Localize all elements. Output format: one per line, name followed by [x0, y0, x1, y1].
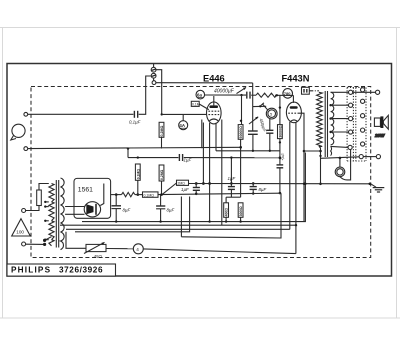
- transformer core: [324, 91, 326, 157]
- wire R1 down: [161, 137, 163, 148]
- junction cathode rail: [202, 182, 205, 185]
- svg-text:30000Ω: 30000Ω: [279, 125, 283, 137]
- grid resistor box 0,1M: [191, 101, 209, 109]
- chassis dashed box: [31, 87, 371, 258]
- mains transformer primary: [49, 184, 54, 246]
- anode wire of E446: [205, 94, 246, 96]
- wire bus4 left riser: [180, 197, 182, 237]
- linked terminals: [359, 155, 380, 159]
- svg-text:4A: 4A: [179, 123, 185, 128]
- label 40000uF with arrow: [214, 87, 246, 94]
- svg-text:3000Ω: 3000Ω: [239, 206, 243, 216]
- output lead to speaker terminal: [353, 91, 376, 93]
- voltage selector triangle: [12, 219, 31, 236]
- wire lamp top lead: [339, 158, 341, 167]
- wire B+ lead out of box: [111, 194, 122, 196]
- mains plug box: [302, 87, 310, 94]
- switch contact 4b: [179, 121, 188, 130]
- junction bus2 heater: [295, 224, 297, 226]
- primary taps: [44, 201, 49, 241]
- wire coupling cap to grid return node: [279, 168, 281, 193]
- mains switch contact lower: [43, 243, 46, 246]
- grid cap lead F443N: [292, 95, 294, 103]
- junction B+: [160, 193, 163, 196]
- svg-text:0,2MΩ: 0,2MΩ: [160, 126, 164, 137]
- svg-text:400Ω: 400Ω: [225, 208, 229, 217]
- switch arm: [262, 104, 268, 110]
- mains terminal 1: [22, 209, 26, 213]
- svg-text:0,1MΩ: 0,1MΩ: [144, 193, 155, 197]
- AF line right segment: [184, 157, 280, 159]
- 8uF electrolytic left: [112, 195, 131, 222]
- wire V1 heater leg 2 to bus: [221, 120, 223, 226]
- bus line 4: [181, 193, 281, 238]
- bus line 2: [60, 224, 296, 226]
- wire zigzag to resistor box: [135, 194, 143, 196]
- wire V1 grid leg to earth line: [201, 120, 203, 149]
- svg-text:45Ω: 45Ω: [94, 254, 103, 259]
- svg-text:1µF: 1µF: [228, 176, 236, 181]
- bus line 3: [66, 228, 290, 230]
- junction: [279, 141, 281, 143]
- speaker: [374, 115, 388, 138]
- svg-text:4: 4: [136, 247, 139, 252]
- cap below switch: [266, 119, 273, 151]
- smoothing resistor zigzag: [122, 192, 135, 196]
- lightning arrester: [151, 64, 156, 78]
- chain line to transformer: [309, 90, 319, 92]
- pickup balloon symbol: [11, 124, 25, 140]
- switch arm tick: [261, 103, 264, 106]
- aerial wire: [156, 82, 253, 84]
- junction bus1 resistor2: [239, 220, 241, 222]
- trimmer capacitor with arrow: [248, 117, 268, 135]
- node: [276, 94, 278, 96]
- svg-text:6a: 6a: [197, 92, 202, 97]
- heater return to output tube: [143, 249, 296, 254]
- junction: [279, 106, 281, 108]
- wire V2 heater leg to bus: [289, 122, 291, 230]
- wire anode feed down: [279, 95, 281, 124]
- node: [161, 113, 163, 115]
- title box PHILIPS 3726/3926: [7, 264, 116, 276]
- wire to dial lamp: [106, 248, 133, 250]
- junction: [137, 156, 139, 158]
- junction tap dots: [329, 104, 331, 133]
- mains switch arm: [46, 237, 52, 240]
- grid leak diagonal wire: [163, 183, 177, 194]
- resistor zigzag: [256, 93, 276, 97]
- anode voltage circle 780: [283, 89, 293, 99]
- secondary winding: [61, 178, 65, 250]
- terminal (earth input): [24, 147, 28, 151]
- svg-text:8µF: 8µF: [167, 208, 175, 213]
- switch contact 5b: [266, 108, 277, 119]
- wire lamp bottom return: [340, 150, 351, 180]
- svg-text:0,1µF: 0,1µF: [129, 120, 141, 125]
- terminal circles column 2: [361, 88, 365, 146]
- node: [240, 94, 242, 96]
- junction rail: [303, 182, 306, 185]
- earth wire: [28, 147, 241, 148]
- junction bus1 cap: [115, 220, 117, 222]
- svg-text:1µF: 1µF: [181, 187, 189, 192]
- svg-text:100: 100: [16, 230, 24, 235]
- junction bus1 resistor: [225, 220, 227, 222]
- pilot lamp: [335, 167, 345, 177]
- junction on screen line: [269, 150, 271, 152]
- wire V1 cathode leg to cathode rail: [202, 123, 204, 184]
- fuse: [37, 190, 42, 206]
- 8uF electrolytic second: [156, 195, 174, 222]
- capacitor 1uF series: [179, 154, 191, 163]
- 1561 rectifier unit box: [74, 178, 111, 218]
- taps to terminals: [331, 92, 349, 147]
- wire heater link to panel: [321, 157, 360, 159]
- tube V2 F443N: [286, 102, 301, 123]
- junction: [127, 147, 129, 149]
- junction AF end: [279, 156, 282, 159]
- junction lamp tap: [339, 157, 342, 160]
- rheostat 45 ohm: [84, 242, 106, 258]
- junction trimmer column: [252, 150, 254, 152]
- svg-text:780: 780: [284, 91, 291, 96]
- resistor 2M grid leak: [177, 180, 189, 185]
- primary bottom lead: [319, 146, 321, 184]
- terminal circles column 1: [348, 90, 353, 149]
- wire down from aerial line: [252, 83, 254, 107]
- junction output link end: [319, 150, 322, 153]
- junction on cathode rail: [319, 183, 322, 186]
- anode feed column: [241, 95, 243, 125]
- 1uF cap column: [228, 156, 236, 197]
- schematic border frame: [7, 64, 392, 277]
- junction B+: [137, 193, 140, 196]
- junction on cathode rail: [303, 183, 305, 185]
- node: [115, 193, 118, 196]
- svg-text:E446: E446: [203, 73, 225, 83]
- wire V2 grid side lead down: [299, 113, 304, 221]
- switch contact 4b stub: [182, 114, 184, 120]
- svg-text:3726/3926: 3726/3926: [59, 266, 103, 275]
- secondary winding sections with taps: [331, 92, 334, 155]
- svg-text:1µF: 1µF: [184, 158, 192, 163]
- junction earth wire end: [239, 146, 242, 149]
- svg-text:PHILIPS: PHILIPS: [11, 266, 51, 275]
- grid wire to V1: [162, 113, 207, 115]
- svg-text:8µF: 8µF: [259, 187, 267, 192]
- capacitor 1uF grid: [181, 184, 200, 196]
- wire C1 up to arrester: [139, 76, 151, 114]
- svg-text:0,1MΩ: 0,1MΩ: [136, 169, 140, 180]
- svg-text:0,2MΩ: 0,2MΩ: [160, 169, 164, 180]
- svg-text:0,1M: 0,1M: [192, 102, 200, 106]
- svg-text:F443N: F443N: [282, 73, 310, 83]
- resistor box 0,1M ohm: [143, 192, 159, 197]
- svg-text:1561: 1561: [78, 186, 93, 193]
- wire resistor down to cathode resistor tee: [240, 139, 242, 197]
- mains switch contact upper: [43, 239, 46, 242]
- resistor box: [238, 125, 243, 140]
- wire resistor2 to B+ line: [161, 181, 163, 195]
- junction bus1 heater: [208, 220, 210, 222]
- bus line 5 short: [75, 197, 190, 232]
- wire mains terminal 2 to switch: [26, 243, 45, 245]
- svg-text:2MΩ: 2MΩ: [178, 181, 186, 185]
- bus line 1: [82, 153, 305, 222]
- screen line: [216, 150, 280, 152]
- dial lamp 4: [133, 244, 143, 254]
- AF line left segment: [128, 157, 178, 159]
- junction bus1 cap2: [159, 220, 161, 222]
- svg-text:40000µF: 40000µF: [214, 89, 235, 95]
- junction bus1 rail crossing: [304, 183, 306, 185]
- wire aerial terminal to C1: [28, 113, 134, 115]
- junction rail left end: [195, 182, 198, 185]
- svg-text:50000Ω: 50000Ω: [239, 126, 243, 138]
- wire V2 heater leg 2 to bus: [295, 122, 297, 253]
- cathode rail wire: [189, 183, 371, 185]
- junction primary lead: [319, 155, 321, 157]
- dotted matching panel: [347, 88, 366, 162]
- resistor R1 0,2M: [159, 122, 164, 137]
- transformer core: [55, 180, 57, 248]
- junction on cathode rail: [208, 182, 211, 185]
- wire rectifier anode lead inside box: [100, 184, 104, 206]
- resistor to AF line: [135, 164, 140, 180]
- wire to F443N grid cap: [275, 94, 293, 96]
- 8uF cap column mid: [250, 182, 267, 195]
- cathode resistor pair: [224, 197, 244, 221]
- primary winding: [317, 92, 323, 146]
- wire: [251, 94, 256, 96]
- ground: [371, 184, 385, 192]
- heater line to rheostat: [66, 232, 86, 249]
- resistor 30000 ohm: [278, 125, 283, 139]
- junction grid return node: [279, 192, 282, 195]
- wire link to output transformer: [304, 150, 321, 152]
- coupling capacitor C2: [247, 92, 250, 99]
- aerial terminal circle: [152, 81, 156, 85]
- wire arrester to aerial terminal: [153, 78, 155, 81]
- wire down to AF line: [127, 149, 129, 158]
- speaker terminal: [376, 90, 380, 94]
- wire resistor to coupling cap: [279, 139, 281, 165]
- B+ line to grid return node: [158, 193, 280, 194]
- trimmer column wire: [252, 107, 254, 131]
- wire resistor to B+ line: [137, 180, 139, 194]
- wire V1 screen leg: [215, 123, 217, 151]
- wire from C2 junction to switch: [253, 105, 267, 107]
- capacitor C1 0,1uF: [129, 111, 141, 125]
- mains terminal 2: [22, 242, 26, 246]
- resistor 0,2M ohm second: [159, 165, 164, 181]
- tube V1 E446: [207, 96, 222, 124]
- switch contact 6a: [196, 90, 205, 99]
- filament leads: [65, 206, 84, 208]
- svg-text:8µF: 8µF: [123, 208, 131, 213]
- wire arrester to grid line: [156, 70, 162, 115]
- terminal (aerial input): [24, 112, 28, 116]
- wire V1 heater leg to bus: [209, 123, 211, 222]
- junction output link: [303, 150, 306, 153]
- junction ground node: [369, 183, 372, 186]
- rectifier tube: [84, 202, 100, 217]
- svg-text:20W: 20W: [374, 133, 385, 138]
- 1uF cap on 279 column: [277, 152, 286, 168]
